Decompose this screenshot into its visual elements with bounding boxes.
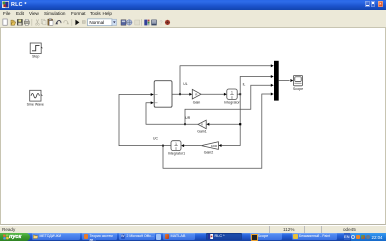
integrator Integrator1 — [168, 141, 185, 156]
redo (disabled) — [64, 20, 68, 23]
disabled icon — [135, 20, 140, 25]
svg-text:Integrator: Integrator — [224, 101, 240, 105]
arrowhead mux input 4 — [271, 93, 274, 96]
play — [75, 19, 79, 25]
svg-text:Scope: Scope — [293, 87, 303, 91]
sep — [141, 19, 143, 26]
start button — [0, 233, 30, 242]
arrowhead mux input 1 — [271, 64, 274, 67]
debug icon — [165, 19, 170, 24]
open — [11, 20, 16, 25]
toolbar — [0, 17, 386, 29]
sine source Sine Wave — [27, 90, 44, 106]
junction UC branch — [162, 145, 164, 147]
app icon (Simulink) — [2, 1, 9, 8]
junction UR branch — [184, 123, 186, 125]
library browser icon — [144, 19, 147, 25]
EN indicator — [344, 233, 351, 240]
wire IL down to gain2 — [220, 94, 240, 145]
wire integrator output IL — [237, 93, 240, 95]
mux — [274, 61, 279, 101]
window buttons — [365, 1, 370, 7]
scope Scope — [293, 75, 303, 90]
svg-text:1000: 1000 — [211, 144, 218, 148]
wire gain1 output UR loop to sum input 2 — [146, 103, 198, 124]
wire sum output to gain — [172, 93, 191, 95]
cut (disabled) — [36, 19, 38, 23]
svg-text:UC: UC — [153, 136, 158, 140]
arrowhead gain2 input (left) — [219, 144, 222, 147]
paste — [48, 19, 53, 25]
wire gain to integrator — [201, 93, 225, 95]
step source Step — [30, 43, 42, 59]
undo — [57, 20, 61, 23]
svg-text:UL: UL — [183, 82, 187, 86]
gain Gain1 (left pointing) — [197, 120, 207, 134]
svg-text:Gain: Gain — [193, 101, 201, 105]
globe/clock icon — [127, 19, 132, 24]
junction UL branch — [179, 93, 181, 95]
wire mux output to scope — [279, 80, 290, 82]
wire UL branch up to mux input 1 — [180, 66, 271, 94]
sep — [31, 19, 33, 26]
arrowhead gain1 input (left) — [206, 123, 209, 126]
menu bar — [0, 10, 386, 17]
active RLC button (pressed) — [206, 233, 242, 240]
svg-text:Sine Wave: Sine Wave — [27, 103, 44, 107]
svg-text:Step: Step — [32, 55, 39, 59]
arrowhead gain input — [189, 93, 192, 96]
arrowhead integrator1 input (left) — [181, 144, 184, 147]
svg-text:Gain2: Gain2 — [204, 151, 214, 155]
wire integrator1 output UC to sum input 1 — [119, 95, 171, 146]
sum block — [154, 81, 172, 108]
copy (disabled) — [41, 19, 44, 23]
svg-text:Gain1: Gain1 — [197, 130, 207, 134]
task buttons — [32, 233, 80, 240]
svg-text:1: 1 — [231, 91, 233, 95]
arrowhead integrator input — [224, 93, 227, 96]
model browser icon — [151, 19, 156, 25]
junction IL-gain1 — [239, 123, 241, 125]
svg-text:IL: IL — [243, 82, 246, 86]
chart icon — [121, 19, 126, 24]
svg-text:Integrator1: Integrator1 — [168, 152, 185, 156]
tray — [351, 233, 386, 242]
wire gain2 output to integrator1 — [184, 145, 202, 147]
integrator Integrator — [224, 89, 240, 105]
sep — [71, 19, 73, 26]
gain Gain — [192, 89, 201, 104]
combo box — [88, 18, 112, 25]
svg-text:UR: UR — [185, 116, 190, 120]
arrowhead sum input 1 — [151, 93, 154, 96]
svg-text:s: s — [231, 95, 233, 99]
arrowhead scope input — [290, 79, 293, 82]
arrowhead mux input 3 — [271, 84, 274, 87]
wire UR branch to mux input 3 — [185, 85, 271, 124]
print — [24, 21, 29, 24]
wire IL up to mux input 2 — [240, 77, 271, 95]
sep — [54, 19, 56, 26]
new — [3, 19, 7, 25]
svg-text:R: R — [201, 123, 203, 127]
junction IL branch — [239, 93, 241, 95]
save — [17, 19, 22, 25]
stop (disabled) — [82, 20, 85, 23]
gain Gain2 (left pointing, wide) — [201, 142, 218, 155]
wire IL branch to gain1 — [208, 123, 240, 125]
arrowhead mux input 2 — [271, 75, 274, 78]
wire UC branch to mux input 4 — [163, 94, 271, 168]
title bar — [0, 0, 386, 10]
arrowhead sum input 2 — [151, 101, 154, 104]
svg-text:1: 1 — [175, 142, 177, 146]
